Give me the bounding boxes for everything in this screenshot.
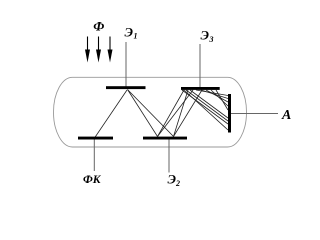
- svg-text:1: 1: [134, 32, 138, 41]
- svg-text:Э: Э: [125, 25, 134, 40]
- svg-text:A: A: [281, 108, 291, 123]
- svg-text:3: 3: [209, 35, 214, 44]
- svg-text:2: 2: [175, 179, 180, 188]
- svg-text:ФК: ФК: [83, 174, 102, 186]
- svg-text:Э: Э: [201, 28, 210, 43]
- svg-text:Ф: Ф: [93, 19, 104, 34]
